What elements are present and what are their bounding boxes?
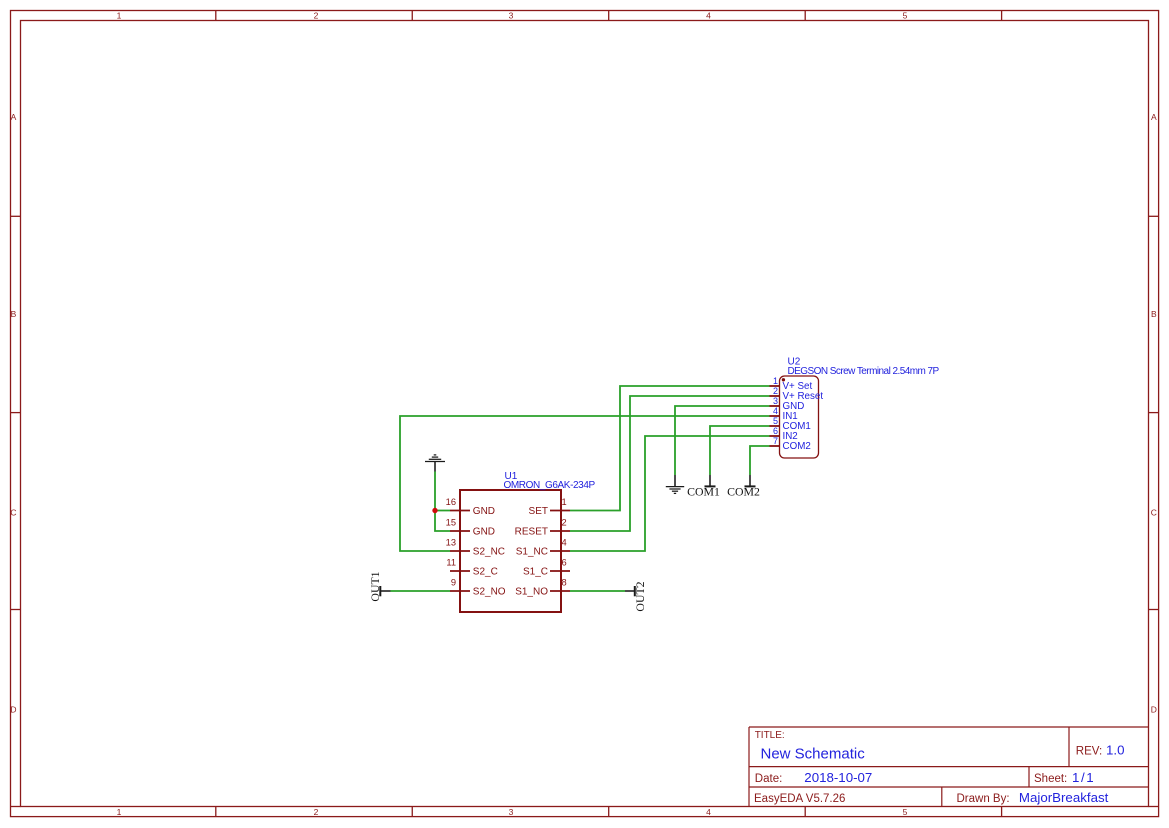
svg-text:9: 9 xyxy=(451,578,456,588)
U2 pin 5 COM1 xyxy=(770,416,811,432)
wire GND net: ground to U1 GND pins xyxy=(435,471,450,531)
connector U2 DEGSON Screw Terminal body xyxy=(780,357,940,459)
svg-text:TITLE:: TITLE: xyxy=(755,730,785,741)
svg-text:COM2: COM2 xyxy=(727,484,760,498)
svg-text:DEGSON Screw Terminal 2.54mm 7: DEGSON Screw Terminal 2.54mm 7P xyxy=(788,366,940,377)
svg-text:4: 4 xyxy=(773,406,778,416)
svg-text:SET: SET xyxy=(529,506,548,517)
svg-text:5: 5 xyxy=(903,807,908,817)
svg-text:4: 4 xyxy=(706,807,711,817)
ground below U2 pin 3 xyxy=(666,475,684,493)
svg-text:GND: GND xyxy=(473,506,495,517)
svg-text:2: 2 xyxy=(314,11,319,21)
svg-text:OMRON_G6AK-234P: OMRON_G6AK-234P xyxy=(504,480,596,491)
svg-text:2: 2 xyxy=(773,386,778,396)
svg-text:Sheet:: Sheet: xyxy=(1034,773,1067,785)
svg-text:15: 15 xyxy=(446,518,456,528)
svg-text:S2_C: S2_C xyxy=(473,567,498,578)
svg-text:4: 4 xyxy=(562,538,567,548)
U1 pin 11 S2_C xyxy=(446,558,497,578)
svg-text:A: A xyxy=(1151,112,1157,122)
wire COM1: U2 pin 5 to COM1 flag xyxy=(710,426,770,476)
U1 pin 15 GND xyxy=(446,518,495,538)
IC U1 OMRON_G6AK-234P body xyxy=(460,471,595,612)
U1 pin 1 SET xyxy=(529,497,570,517)
svg-text:1/1: 1/1 xyxy=(1072,770,1095,785)
svg-text:16: 16 xyxy=(446,497,456,507)
svg-text:3: 3 xyxy=(509,11,514,21)
U1 pin 2 RESET xyxy=(515,518,570,538)
svg-text:B: B xyxy=(1151,309,1157,319)
svg-text:C: C xyxy=(10,508,16,518)
U1 pin 16 GND xyxy=(446,497,495,517)
svg-text:5: 5 xyxy=(773,416,778,426)
U2 pin 6 IN2 xyxy=(770,426,798,442)
wire OUT1: flag to U1 S2_NO xyxy=(390,590,450,592)
wire IN2: U2 pin 6 to U1 S1_NC xyxy=(570,436,770,551)
wire V+ Reset: U2 pin 2 to U1 RESET xyxy=(570,396,770,531)
svg-text:D: D xyxy=(10,705,16,715)
title block xyxy=(749,727,1149,807)
svg-text:3: 3 xyxy=(509,807,514,817)
wire COM2: U2 pin 7 to COM2 flag xyxy=(750,446,770,476)
svg-text:Date:: Date: xyxy=(755,773,783,785)
ground (flipped) near U1 GND xyxy=(425,455,445,472)
net flag COM1 xyxy=(687,475,720,498)
net flag OUT1 xyxy=(368,571,391,601)
svg-text:8: 8 xyxy=(562,578,567,588)
svg-text:COM1: COM1 xyxy=(687,484,720,498)
svg-text:MajorBreakfast: MajorBreakfast xyxy=(1019,790,1109,805)
svg-text:S2_NC: S2_NC xyxy=(473,547,505,558)
svg-text:1: 1 xyxy=(562,497,567,507)
svg-text:GND: GND xyxy=(473,527,495,538)
svg-text:OUT1: OUT1 xyxy=(368,571,382,601)
svg-text:6: 6 xyxy=(562,558,567,568)
U2 pin 2 V+ Reset xyxy=(770,386,824,402)
svg-text:S1_NO: S1_NO xyxy=(515,587,548,598)
svg-text:S1_C: S1_C xyxy=(523,567,548,578)
net flag OUT2 xyxy=(625,581,647,611)
svg-text:5: 5 xyxy=(903,11,908,21)
U2 pin 3 GND xyxy=(770,396,805,412)
U1 pin 13 S2_NC xyxy=(446,538,505,558)
net flag COM2 xyxy=(727,475,760,498)
svg-text:1.0: 1.0 xyxy=(1106,743,1125,758)
svg-text:B: B xyxy=(11,309,17,319)
svg-text:S1_NC: S1_NC xyxy=(516,547,548,558)
U1 pin 8 S1_NO xyxy=(515,578,570,598)
U1 pin 6 S1_C xyxy=(523,558,570,578)
svg-text:1: 1 xyxy=(117,11,122,21)
svg-text:2: 2 xyxy=(314,807,319,817)
svg-text:7: 7 xyxy=(773,436,778,446)
wire OUT2: U1 S1_NO to flag xyxy=(570,590,625,592)
svg-text:EasyEDA V5.7.26: EasyEDA V5.7.26 xyxy=(754,793,845,805)
svg-text:1: 1 xyxy=(773,376,778,386)
svg-text:Drawn By:: Drawn By: xyxy=(957,793,1010,805)
U2 pin 4 IN1 xyxy=(770,406,798,422)
junction dot GND net xyxy=(432,508,437,513)
svg-text:REV:: REV: xyxy=(1076,746,1102,758)
svg-text:RESET: RESET xyxy=(515,527,548,538)
svg-text:COM2: COM2 xyxy=(783,441,811,452)
U2 pin 7 COM2 xyxy=(770,436,811,452)
U1 pin 4 S1_NC xyxy=(516,538,570,558)
svg-text:3: 3 xyxy=(773,396,778,406)
U1 pin 9 S2_NO xyxy=(450,578,506,598)
wire V+ Set: U2 pin 1 to U1 SET xyxy=(570,386,770,511)
wire GND: U2 pin 3 to ground xyxy=(675,406,770,476)
svg-text:2: 2 xyxy=(562,518,567,528)
svg-text:C: C xyxy=(1151,508,1157,518)
U2 pin 1 V+ Set xyxy=(770,376,813,392)
svg-text:D: D xyxy=(1151,705,1157,715)
svg-text:6: 6 xyxy=(773,426,778,436)
svg-text:A: A xyxy=(11,112,17,122)
svg-text:4: 4 xyxy=(706,11,711,21)
svg-text:11: 11 xyxy=(446,558,456,568)
svg-text:New Schematic: New Schematic xyxy=(761,746,866,763)
svg-text:OUT2: OUT2 xyxy=(633,581,647,611)
svg-text:13: 13 xyxy=(446,538,456,548)
wire IN1: U2 pin 4 to U1 S2_NC xyxy=(400,416,770,551)
svg-text:S2_NO: S2_NO xyxy=(473,587,506,598)
svg-text:1: 1 xyxy=(117,807,122,817)
svg-text:2018-10-07: 2018-10-07 xyxy=(804,770,872,785)
